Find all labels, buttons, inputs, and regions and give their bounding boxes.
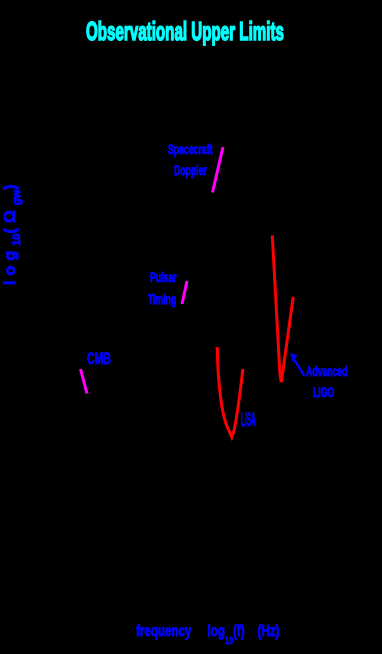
LISA sensitivity curve (red V): [217, 347, 243, 437]
y-axis label log10(Omega_gw): [3, 179, 23, 285]
label CMB: [87, 350, 111, 367]
label LISA: [241, 411, 256, 430]
CMB limit segment (magenta): [81, 369, 88, 394]
arrowhead of Advanced LIGO pointer: [290, 353, 297, 362]
pulsar timing limit segment (magenta): [182, 281, 187, 304]
label Spacecraft Doppler: [168, 142, 212, 156]
spacecraft doppler limit segment (magenta): [213, 147, 224, 193]
Advanced LIGO sensitivity curve (red V): [272, 236, 293, 383]
title: Observational Upper Limits: [86, 18, 284, 44]
label Advanced LIGO: [306, 364, 347, 378]
x-axis label: frequency log10(f) (Hz): [136, 624, 279, 647]
arrow from Advanced LIGO label to curve: [294, 360, 304, 376]
label Pulsar Timing: [150, 270, 177, 284]
